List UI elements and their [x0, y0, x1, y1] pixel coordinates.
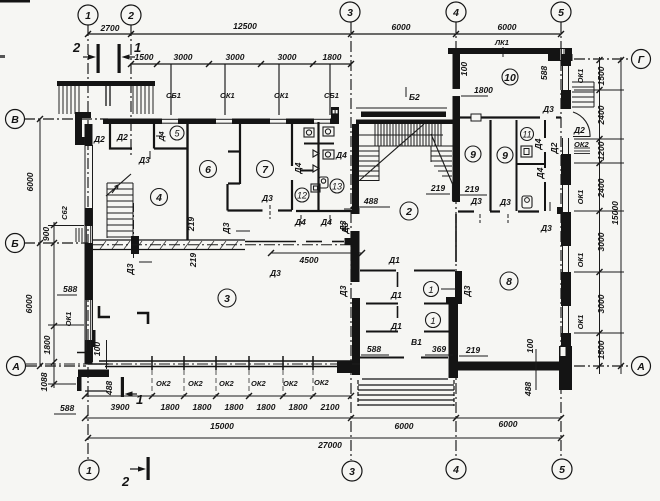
- band centerline dashdot: [93, 244, 352, 246]
- east wall window ОК1 top: [563, 66, 569, 333]
- svg-text:Д3: Д3: [470, 196, 482, 206]
- south wall right block: [458, 362, 560, 371]
- vestibule room circle 1 upper: [424, 282, 439, 297]
- scan edge artifact top left: [0, 0, 30, 3]
- svg-text:3000: 3000: [278, 52, 297, 62]
- tick for ЛК1: [502, 47, 504, 57]
- right dim column line 2: [620, 57, 622, 374]
- svg-text:Б2: Б2: [409, 92, 420, 102]
- east wall black segments: [561, 54, 571, 362]
- window center tick СБ1: [170, 64, 172, 115]
- stair block west wall: [352, 124, 359, 214]
- top sub dimension line row 2: [131, 63, 351, 65]
- wall rooms9-8: [458, 210, 539, 212]
- window С62 outside sill hatch: [76, 228, 82, 242]
- left extension ticks: [48, 226, 84, 385]
- svg-text:4500: 4500: [299, 255, 319, 265]
- window С62 in west wall: [86, 226, 90, 243]
- svg-text:ОК2: ОК2: [219, 379, 234, 388]
- svg-text:1800: 1800: [42, 335, 52, 354]
- west wall black segments: [85, 124, 93, 364]
- svg-text:Д4: Д4: [294, 217, 306, 227]
- north wall stair block: [356, 120, 453, 125]
- svg-text:6000: 6000: [498, 22, 517, 32]
- tambour partition 1: [360, 270, 455, 272]
- axis line Г horizontal: [574, 58, 631, 60]
- south dim line windows: [82, 393, 354, 399]
- svg-text:1500: 1500: [596, 66, 606, 85]
- axis circle В left: [6, 110, 25, 129]
- svg-text:12: 12: [297, 191, 307, 201]
- balcony hatch right group: [133, 86, 153, 114]
- exterior stair treads ЛК1: [572, 82, 594, 107]
- entry pilaster top left: [75, 112, 91, 145]
- north wall right block: [448, 48, 572, 54]
- room circle 12: [295, 188, 309, 202]
- partition wall rooms 6-7: [228, 122, 293, 211]
- svg-text:6000: 6000: [392, 22, 411, 32]
- svg-text:588: 588: [539, 66, 549, 80]
- window center tick ОК1: [278, 64, 280, 115]
- svg-text:ОК2: ОК2: [251, 379, 266, 388]
- balcony slab top left: [57, 81, 155, 86]
- urinal fixture b: [313, 165, 319, 172]
- stair left flight treads: [359, 146, 379, 181]
- east pier at wall 9-8: [557, 207, 563, 214]
- axis circle 1 bottom: [79, 460, 99, 480]
- west wall inner pier strip: [93, 330, 96, 347]
- small box fixture: [311, 184, 320, 192]
- svg-text:2400: 2400: [596, 105, 606, 125]
- svg-text:3: 3: [224, 293, 230, 305]
- south wall mullion ticks: [152, 356, 313, 370]
- svg-text:Д4: Д4: [293, 162, 303, 174]
- axis circle 3 top: [340, 2, 360, 22]
- svg-text:ОК1: ОК1: [64, 312, 73, 327]
- left dim line 6000 column: [37, 116, 57, 388]
- svg-text:А: А: [11, 361, 20, 373]
- svg-text:1800: 1800: [289, 402, 308, 412]
- svg-text:1800: 1800: [474, 85, 493, 95]
- axis circle 1 top: [78, 5, 98, 25]
- axis line А left horizontal: [26, 365, 86, 367]
- svg-text:Д3: Д3: [462, 285, 472, 297]
- vestibule wall room 5: [110, 124, 187, 149]
- svg-text:3000: 3000: [174, 52, 193, 62]
- svg-text:6000: 6000: [24, 294, 34, 313]
- svg-text:5: 5: [558, 7, 564, 19]
- tick for Д3 band: [236, 230, 250, 232]
- svg-text:2: 2: [405, 206, 412, 218]
- southeast corner block: [559, 346, 572, 390]
- sanitary cell right walls: [517, 120, 546, 211]
- section marker 2 bottom: [147, 457, 150, 480]
- room circle 3: [218, 289, 236, 307]
- room1 block west wall: [352, 298, 360, 375]
- window center tick ОК1: [224, 64, 226, 115]
- stair room 4 treads: [107, 183, 133, 238]
- canopy edge line stair block: [356, 107, 447, 109]
- basin fixture b: [323, 127, 334, 136]
- svg-text:СБ1: СБ1: [166, 91, 181, 100]
- left dim line segment column: [53, 222, 55, 388]
- svg-text:1: 1: [86, 465, 92, 477]
- svg-text:4: 4: [452, 464, 459, 476]
- corner window slot: [561, 49, 566, 60]
- east wall window ОК1 mid: [562, 185, 564, 212]
- svg-text:2: 2: [72, 40, 81, 55]
- svg-text:ОК2: ОК2: [188, 379, 203, 388]
- svg-text:Д2: Д2: [549, 142, 559, 154]
- southwest porch step: [77, 370, 109, 392]
- stair bottom edge right: [452, 184, 454, 201]
- svg-text:588: 588: [60, 403, 74, 413]
- svg-text:1: 1: [430, 316, 435, 327]
- svg-text:1: 1: [134, 40, 141, 55]
- svg-text:588: 588: [367, 344, 381, 354]
- svg-text:4: 4: [155, 192, 162, 204]
- svg-text:100: 100: [92, 342, 102, 356]
- axis line 4 vertical: [455, 22, 457, 458]
- tick to Д4 room5: [156, 135, 162, 137]
- basin fixture room 11: [521, 146, 532, 157]
- room circle 4: [151, 189, 168, 206]
- svg-text:3: 3: [349, 466, 355, 478]
- svg-text:1: 1: [85, 10, 91, 22]
- partition wall room 7 right: [291, 122, 293, 210]
- corner pier right: [548, 54, 561, 61]
- axis line 2 vertical: [130, 25, 132, 158]
- sanitary center wall: [317, 122, 319, 211]
- svg-text:2400: 2400: [596, 178, 606, 198]
- svg-text:6000: 6000: [499, 419, 518, 429]
- sanitary bottom wall: [296, 210, 352, 212]
- svg-text:6000: 6000: [395, 421, 414, 431]
- toilet fixture right block: [522, 196, 532, 208]
- stair west wall lower with door: [345, 206, 360, 282]
- thin wall continuation to stair block: [245, 241, 344, 243]
- svg-text:Д3: Д3: [542, 104, 554, 114]
- svg-text:Д2: Д2: [116, 132, 128, 142]
- svg-text:1200: 1200: [596, 141, 606, 160]
- column mark room 3 left: [99, 306, 110, 317]
- room circle 5: [170, 126, 184, 140]
- svg-text:488: 488: [104, 381, 114, 396]
- svg-text:219: 219: [186, 217, 196, 232]
- stair room 4 up arrow: [112, 185, 118, 193]
- svg-text:С62: С62: [60, 205, 69, 220]
- svg-text:Д4: Д4: [335, 150, 347, 160]
- svg-text:6: 6: [205, 164, 211, 176]
- svg-text:1500: 1500: [596, 340, 606, 359]
- svg-text:3000: 3000: [226, 52, 245, 62]
- svg-text:219: 219: [464, 184, 479, 194]
- svg-text:1800: 1800: [323, 52, 342, 62]
- svg-text:1088: 1088: [39, 372, 49, 391]
- svg-text:ОК2: ОК2: [283, 379, 298, 388]
- axis line В horizontal: [24, 118, 108, 120]
- room circle 9 left: [465, 146, 481, 162]
- room circle 9 right: [497, 147, 513, 163]
- svg-text:Д1: Д1: [390, 290, 402, 300]
- door post tambour: [397, 272, 399, 287]
- svg-text:Д3: Д3: [138, 155, 150, 165]
- axis circle 3 bottom: [342, 461, 362, 481]
- svg-text:6000: 6000: [25, 172, 35, 191]
- east wall window ОК1 lowest: [562, 306, 564, 333]
- stair room 4 flight axis dashdot: [133, 203, 135, 258]
- svg-text:Д3: Д3: [261, 193, 273, 203]
- dim line 15000 6000 6000: [82, 415, 564, 421]
- southwest corner step outline: [77, 353, 109, 365]
- tick to door Д3: [441, 288, 456, 290]
- svg-text:В1: В1: [411, 337, 422, 347]
- svg-text:Д4: Д4: [535, 167, 545, 179]
- svg-text:15000: 15000: [210, 421, 234, 431]
- svg-text:В: В: [11, 114, 19, 126]
- svg-text:588: 588: [63, 284, 77, 294]
- svg-text:3000: 3000: [596, 232, 606, 251]
- south wall axis dashdot: [26, 363, 352, 365]
- svg-text:ОК1: ОК1: [576, 315, 585, 330]
- entrance door Д2 arc: [573, 112, 590, 137]
- svg-text:2: 2: [121, 474, 130, 489]
- axis circle А right: [632, 357, 651, 376]
- sanitary lower shelf: [300, 170, 313, 172]
- room circle 8: [500, 272, 518, 290]
- right dim column line 1: [597, 57, 625, 374]
- svg-text:ОК1: ОК1: [576, 190, 585, 205]
- east wall window ОК2: [562, 138, 564, 154]
- svg-text:488: 488: [363, 196, 378, 206]
- notch southeast block: [561, 347, 566, 356]
- door leaf room10: [471, 114, 481, 121]
- window СБ1 in north wall: [314, 118, 330, 120]
- entrance wall with В1: [360, 357, 448, 359]
- svg-text:369: 369: [432, 344, 446, 354]
- axis circle Г right: [632, 50, 651, 69]
- svg-text:8: 8: [506, 276, 512, 288]
- axis circle А left: [7, 357, 26, 376]
- svg-text:1800: 1800: [161, 402, 180, 412]
- svg-text:9: 9: [470, 149, 476, 161]
- dim 4500 line room 3: [271, 252, 362, 254]
- svg-text:Д3: Д3: [540, 223, 552, 233]
- svg-text:Д4: Д4: [533, 138, 543, 150]
- svg-text:1800: 1800: [225, 402, 244, 412]
- sanitary shelf wall: [304, 143, 334, 145]
- svg-text:3900: 3900: [111, 402, 130, 412]
- axis line 3 vertical: [350, 22, 352, 460]
- svg-text:Д2: Д2: [93, 134, 105, 144]
- svg-text:ОК1: ОК1: [220, 91, 235, 100]
- svg-text:4: 4: [452, 7, 459, 19]
- svg-text:488: 488: [523, 382, 533, 397]
- opening in axis 4 wall: [452, 88, 461, 97]
- svg-text:Д3: Д3: [269, 268, 281, 278]
- door dash tick sanitary b: [329, 215, 331, 224]
- right extension ticks: [574, 90, 624, 333]
- axis circle 4 bottom: [446, 459, 466, 479]
- stair right flight treads: [431, 146, 452, 176]
- axis line А right horizontal: [574, 365, 631, 367]
- top dimension line 27700 row: [88, 33, 561, 35]
- svg-text:Д2: Д2: [573, 125, 585, 135]
- axis circle 5 top: [551, 2, 571, 22]
- svg-text:100: 100: [525, 339, 535, 353]
- svg-text:ОК2: ОК2: [156, 379, 171, 388]
- svg-text:10: 10: [504, 72, 516, 84]
- svg-text:219: 219: [430, 183, 445, 193]
- band hatch: [100, 241, 238, 249]
- svg-text:15000: 15000: [610, 201, 620, 225]
- dim line 27000: [85, 435, 564, 441]
- axis circle 5 bottom: [552, 459, 572, 479]
- svg-text:Д3: Д3: [221, 222, 231, 234]
- svg-text:Г: Г: [638, 54, 645, 66]
- toilet fixture left: [319, 177, 328, 188]
- room circle 11: [521, 128, 534, 141]
- door tick room 7: [269, 205, 271, 219]
- tick southeast: [535, 349, 537, 390]
- door dash tick sanitary a: [300, 215, 302, 224]
- svg-text:3: 3: [347, 7, 353, 19]
- scan edge artifact left: [0, 55, 5, 58]
- svg-text:2: 2: [127, 10, 134, 22]
- porch step edge line: [85, 390, 107, 392]
- balcony middle posts: [106, 86, 110, 106]
- svg-text:СБ1: СБ1: [324, 91, 339, 100]
- svg-text:Д1: Д1: [388, 255, 400, 265]
- thin wall above room1 east: [455, 214, 457, 262]
- svg-text:2100: 2100: [320, 402, 340, 412]
- window pier at СБ1 end: [331, 107, 339, 120]
- svg-text:А: А: [636, 361, 645, 373]
- south wall pier at axis 3: [337, 361, 352, 373]
- window ОК1 in west wall: [86, 300, 90, 351]
- stair mid landing line: [359, 145, 453, 147]
- balcony hatch left group: [59, 86, 79, 114]
- band end pier left: [131, 236, 139, 254]
- axis circle 2 top: [121, 5, 141, 25]
- svg-text:ОК1: ОК1: [576, 69, 585, 84]
- svg-text:Д3: Д3: [125, 263, 135, 275]
- svg-text:2700: 2700: [100, 23, 120, 33]
- stair block east wall on axis 4: [453, 48, 461, 202]
- column mark room 3 right: [137, 313, 148, 324]
- svg-text:11: 11: [522, 130, 531, 140]
- south wall thin double line: [99, 361, 352, 367]
- sill hatch below door: [574, 148, 590, 154]
- north wall left block: [103, 119, 339, 125]
- tambour partition 2: [366, 303, 449, 305]
- svg-text:100: 100: [459, 62, 469, 76]
- svg-text:219: 219: [465, 345, 480, 355]
- axis line 1 vertical: [87, 25, 89, 459]
- svg-text:ОК2: ОК2: [314, 378, 329, 387]
- tambour partition 3: [366, 331, 449, 333]
- axis line 5 vertical: [560, 22, 562, 458]
- partition rooms 9-9: [489, 120, 491, 211]
- svg-text:5: 5: [559, 464, 565, 476]
- southwest dim extension line: [106, 340, 108, 369]
- svg-text:Б: Б: [11, 238, 19, 250]
- svg-text:12500: 12500: [233, 21, 257, 31]
- svg-text:3000: 3000: [596, 294, 606, 313]
- svg-text:Д3: Д3: [338, 220, 348, 232]
- svg-text:1800: 1800: [193, 402, 212, 412]
- svg-text:ОК1: ОК1: [576, 253, 585, 268]
- room1 block east wall: [446, 271, 462, 378]
- svg-text:ЛК1: ЛК1: [494, 38, 509, 47]
- wall rooms10-9: [460, 116, 561, 118]
- basin fixture a: [304, 127, 334, 192]
- porch steps hatch: [358, 379, 454, 406]
- west wall outer line: [85, 124, 93, 362]
- svg-text:9: 9: [502, 150, 508, 162]
- svg-text:ОК1: ОК1: [274, 91, 289, 100]
- axis circle Б left: [6, 234, 25, 253]
- south wall window extension dashes: [152, 370, 313, 396]
- svg-text:Д4: Д4: [320, 217, 332, 227]
- svg-text:219: 219: [188, 253, 198, 268]
- tick for Б2: [405, 87, 407, 97]
- svg-text:1800: 1800: [257, 402, 276, 412]
- axis line Б horizontal: [24, 242, 88, 244]
- stair break diagonal right: [431, 134, 453, 184]
- svg-text:900: 900: [41, 227, 51, 241]
- window СБ1 in north wall: [162, 119, 330, 123]
- urinal fixture a: [313, 150, 319, 157]
- thin sill line south continuation: [352, 363, 360, 365]
- window center tick СБ1: [329, 64, 331, 115]
- section marker 1 bottom: [121, 377, 124, 397]
- axis circle 4 top: [446, 2, 466, 22]
- svg-text:Д3: Д3: [499, 197, 511, 207]
- room circle 2: [400, 202, 418, 220]
- basin fixture c: [323, 150, 334, 159]
- canopy slab stair block: [361, 112, 446, 118]
- window ОК1 in north wall: [270, 118, 286, 120]
- svg-text:1: 1: [428, 285, 433, 296]
- room circle 13: [330, 179, 344, 193]
- svg-text:1: 1: [136, 392, 143, 407]
- svg-text:13: 13: [332, 182, 342, 192]
- room circle 10: [502, 69, 518, 85]
- room circle 6: [200, 161, 217, 178]
- vestibule room circle 1 lower: [426, 313, 441, 328]
- corridor band wall rooms to room3: [93, 240, 245, 250]
- main stair upper flight hatch: [359, 124, 453, 146]
- east wall window ОК1 low: [562, 246, 564, 272]
- room circle 7: [257, 161, 274, 178]
- partition wall rooms 4-6: [186, 121, 188, 240]
- svg-text:27000: 27000: [317, 440, 342, 450]
- svg-text:Д3: Д3: [338, 285, 348, 297]
- tick Д3 room4: [149, 151, 151, 159]
- window ОК1 in north wall: [216, 118, 232, 120]
- stair room 4 break diagonal: [106, 174, 131, 196]
- svg-text:Д1: Д1: [390, 321, 402, 331]
- stair break diagonal left: [360, 124, 424, 180]
